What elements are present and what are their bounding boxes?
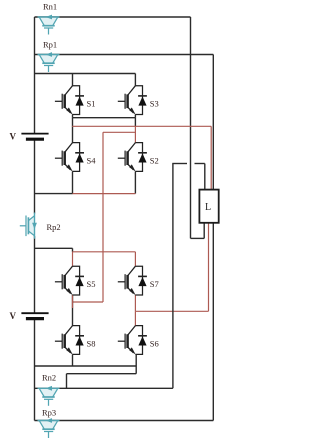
wire S2 collector stub red	[134, 126, 136, 142]
wire S2 collector stub upper	[134, 118, 136, 127]
RB-IGBT Rp2	[20, 213, 37, 239]
RB-IGBT Rp3	[38, 418, 60, 438]
wire left rail between Rp2 and V2	[34, 239, 36, 313]
wire red line bridge2 to load	[135, 310, 208, 312]
wire bridge2 top bus	[35, 247, 73, 249]
transistor S7	[118, 266, 147, 295]
svg-text:Rn1: Rn1	[43, 2, 57, 12]
wire S7 collector stub red	[134, 252, 136, 266]
transistor S1	[55, 86, 84, 115]
svg-text:Rp2: Rp2	[47, 222, 61, 232]
wire Rn2 line	[35, 387, 173, 389]
wire load bottom stub	[203, 223, 205, 239]
transistor S3	[118, 86, 147, 115]
svg-text:V: V	[10, 132, 17, 142]
wire bridge2 bus drop	[72, 248, 74, 252]
svg-text:V: V	[10, 311, 17, 321]
wire red vertical mid	[102, 132, 104, 302]
wire bridge1 bottom bus black part	[35, 193, 73, 195]
wire red leg segment	[72, 295, 74, 308]
wire bridge1 bottom bus red part	[73, 193, 136, 195]
wire S6 emitter stub	[135, 354, 137, 373]
battery V1	[21, 134, 48, 140]
wire Rp2 top stub	[34, 211, 36, 214]
svg-text:S6: S6	[150, 339, 159, 349]
wire S7 emitter to S6 collector red	[134, 295, 136, 311]
svg-text:Rp1: Rp1	[43, 40, 57, 50]
wire bridge2 bottom bus	[35, 365, 137, 367]
svg-text:S5: S5	[87, 279, 96, 289]
wire S3 emitter stub	[134, 115, 136, 118]
wire right vertical from Rp1 to Rp3	[212, 55, 214, 421]
wire S4 collector stub	[72, 118, 74, 143]
RB-IGBT Rn2	[38, 386, 60, 406]
wire red output line node A	[72, 125, 211, 127]
wire S1 emitter stub	[72, 115, 74, 118]
wire load bracket left segment	[172, 163, 187, 165]
wire jog to Rn2	[67, 373, 137, 375]
wire S8 emitter stub	[72, 354, 74, 366]
wire Rp1 line to right	[35, 54, 214, 56]
transistor S6	[118, 326, 147, 355]
transistor S2	[118, 143, 147, 172]
wire S2 emitter stub	[134, 171, 136, 193]
RB-IGBT Rn1	[38, 15, 60, 35]
svg-text:S8: S8	[87, 339, 96, 349]
wire S1 collector stub	[72, 74, 74, 86]
svg-text:Rp3: Rp3	[42, 408, 56, 418]
wire Rp2 bottom stub	[34, 236, 36, 239]
wire left rail bottom section	[34, 319, 36, 421]
wire load top stub	[204, 164, 206, 190]
wire right vertical from Rn1 to load bottom	[190, 17, 192, 238]
wire S3 collector stub	[134, 74, 136, 86]
svg-text:Rn2: Rn2	[42, 373, 56, 383]
svg-text:L: L	[205, 202, 211, 213]
wire S4 emitter stub	[72, 171, 74, 193]
RB-IGBT Rp1	[38, 52, 60, 72]
wire red branch horizontal	[103, 131, 135, 133]
wire S5 collector stub red	[72, 252, 74, 266]
svg-text:S3: S3	[150, 99, 159, 109]
inductor L	[199, 190, 218, 223]
wire Rp3 line	[35, 420, 214, 422]
wire Rn1 line to right	[35, 16, 191, 18]
wire S6 collector red drop	[134, 311, 136, 325]
svg-text:S7: S7	[150, 279, 159, 289]
wire left rail between V1 and Rp2	[34, 140, 36, 211]
wire drop to Rn2 line	[66, 374, 68, 389]
svg-text:S2: S2	[150, 156, 159, 166]
wire red bridge2 top line	[73, 251, 136, 253]
wire red right vertical lower	[208, 223, 210, 312]
battery V2	[21, 313, 48, 318]
wire bridge1 mid bus	[73, 117, 136, 119]
wire S5 emitter to S8 collector	[72, 295, 74, 326]
wire load bracket right segment	[195, 163, 205, 165]
wire red link to left leg	[73, 301, 104, 303]
wire load bottom bracket	[191, 237, 205, 239]
wire bridge1 top bus	[35, 73, 136, 75]
transistor S5	[55, 266, 84, 295]
wire red right vertical upper	[210, 126, 212, 190]
transistor S8	[55, 326, 84, 355]
wire left rail top section	[34, 17, 36, 133]
svg-text:S1: S1	[87, 99, 96, 109]
svg-text:S4: S4	[87, 156, 97, 166]
wire load top vertical	[172, 164, 174, 389]
transistor S4	[55, 143, 84, 172]
